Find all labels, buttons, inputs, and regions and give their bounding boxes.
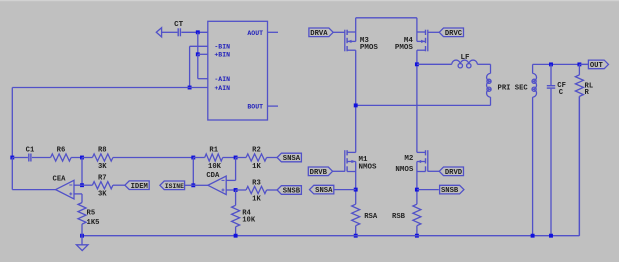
wire CT to block +BIN node — [181, 31, 207, 33]
port SNSB mid — [440, 185, 464, 195]
wire SNSA to M1 source — [334, 189, 356, 191]
wire R6R8 node down to CEA- — [81, 158, 83, 186]
pin +AIN — [214, 85, 230, 92]
svg-text:ISINE: ISINE — [165, 183, 184, 190]
wire BOUT stub — [268, 105, 279, 107]
wire R3 to SNSB — [267, 189, 278, 191]
svg-text:-BIN: -BIN — [214, 44, 230, 51]
transformer secondary SEC — [532, 73, 537, 97]
wire RSA to rail — [355, 226, 357, 236]
capacitor CF — [547, 64, 566, 235]
transistor M4 PMOS — [395, 30, 428, 52]
wire SEC bottom down — [532, 97, 534, 236]
wire LF to PRI — [477, 64, 490, 73]
wire LF lead — [417, 63, 452, 65]
wire M4 gate to DRVC — [428, 31, 440, 33]
svg-text:1K: 1K — [252, 195, 261, 203]
wire node to R3 — [236, 189, 247, 191]
svg-text:C1: C1 — [26, 147, 35, 155]
wire +AIN long west — [12, 87, 208, 89]
svg-text:SNSA: SNSA — [315, 187, 333, 195]
resistor RSA — [352, 204, 378, 226]
wire DRVB to M1 gate — [333, 170, 345, 172]
wire node to R7 — [82, 184, 92, 186]
svg-text:NMOS: NMOS — [359, 163, 378, 171]
node C1 left — [10, 156, 14, 160]
svg-text:C: C — [559, 89, 564, 97]
svg-text:R8: R8 — [98, 147, 107, 155]
transistor M3 PMOS — [345, 30, 379, 52]
port IDEM — [125, 181, 149, 191]
svg-text:PRI SEC: PRI SEC — [498, 84, 529, 92]
node CT junction — [196, 30, 200, 34]
svg-text:OUT: OUT — [590, 62, 604, 70]
svg-text:+AIN: +AIN — [214, 85, 230, 92]
svg-text:DRVB: DRVB — [310, 169, 328, 177]
svg-text:AOUT: AOUT — [247, 30, 263, 37]
label PRI SEC — [498, 84, 529, 92]
wire R4 to rail — [235, 227, 237, 236]
svg-text:LF: LF — [460, 54, 470, 62]
node SEC rail — [531, 234, 535, 238]
node RSA rail — [354, 234, 358, 238]
wire M2 source to SNSB — [417, 189, 439, 191]
resistor R6 — [51, 147, 72, 161]
svg-text:SNSA: SNSA — [283, 155, 301, 163]
wire node to R8 — [82, 157, 92, 159]
wire node to R2 — [236, 157, 247, 159]
wire node down to ISINE — [192, 158, 194, 186]
svg-text:R7: R7 — [98, 174, 107, 182]
wire CEA+ to R5 — [74, 194, 82, 203]
resistor R2 1K — [246, 147, 267, 171]
wire M4 source down — [416, 50, 418, 152]
svg-text:R1: R1 — [209, 147, 218, 155]
node CEA- junction — [80, 183, 84, 187]
port DRVD — [439, 167, 463, 177]
node RSB rail — [415, 234, 419, 238]
svg-text:RSA: RSA — [364, 213, 378, 221]
svg-text:R3: R3 — [252, 179, 261, 187]
inductor LF — [452, 54, 478, 68]
svg-text:BOUT: BOUT — [247, 104, 263, 111]
svg-text:CT: CT — [174, 21, 184, 29]
wire CDA- feedback — [226, 158, 235, 181]
wire M3 source down — [355, 50, 357, 152]
port DRVA — [309, 28, 333, 38]
op-amp CEA — [53, 175, 74, 199]
svg-text:3K: 3K — [98, 191, 107, 199]
svg-text:SNSB: SNSB — [441, 187, 459, 195]
svg-text:R5: R5 — [87, 209, 96, 217]
node R8-R1 junction — [191, 156, 195, 160]
svg-text:CDA: CDA — [206, 172, 220, 180]
port DRVC — [439, 28, 463, 38]
pin -BIN — [214, 44, 230, 51]
op-amp CDA — [206, 172, 226, 195]
wire M2 gate to DRVD — [428, 170, 440, 172]
wire west vertical down — [11, 88, 13, 158]
wire CEA- to node — [74, 184, 82, 186]
node ISINE junction — [191, 183, 195, 187]
svg-text:R2: R2 — [252, 147, 261, 155]
svg-text:1K: 1K — [252, 163, 261, 171]
capacitor CT — [174, 21, 184, 36]
port ISINE — [160, 181, 185, 190]
svg-text:10K: 10K — [208, 163, 222, 171]
node mid-rail junction — [354, 103, 358, 107]
resistor R3 1K — [246, 179, 267, 203]
wire SEC top to output rail — [533, 64, 589, 73]
node R6-R8 — [80, 156, 84, 160]
svg-text:DRVD: DRVD — [445, 169, 463, 177]
svg-text:R6: R6 — [57, 147, 66, 155]
wire RSB to rail — [416, 226, 418, 236]
svg-text:-AIN: -AIN — [214, 76, 230, 83]
wire C1 to R6 — [32, 157, 51, 159]
capacitor C1 — [12, 147, 35, 162]
wire RL to OUT — [579, 63, 588, 65]
wire bottom rail — [82, 96, 579, 235]
svg-text:PMOS: PMOS — [395, 44, 414, 52]
wire M1 source down — [355, 172, 357, 205]
wire +BIN node down to -AIN — [198, 54, 208, 78]
wire R6 to node — [71, 157, 82, 159]
wire ISINE to CDA — [185, 184, 208, 186]
svg-text:DRVA: DRVA — [310, 30, 328, 38]
wire node to R1 — [193, 157, 204, 159]
svg-text:3K: 3K — [98, 163, 107, 171]
wire R8 to R1 node — [113, 157, 193, 159]
pin -AIN — [214, 76, 230, 83]
svg-text:+BIN: +BIN — [214, 52, 230, 59]
node SNSB tap — [415, 188, 419, 192]
resistor RSB — [392, 204, 421, 226]
transformer primary PRI — [487, 73, 492, 97]
svg-text:IDEM: IDEM — [131, 183, 148, 191]
svg-text:10K: 10K — [242, 217, 256, 225]
input arrow port (CT left terminal) — [156, 28, 161, 37]
wire +BIN pin — [198, 53, 208, 55]
svg-text:DRVC: DRVC — [445, 30, 463, 38]
node ground — [80, 234, 84, 238]
wire M2 source down — [416, 172, 418, 205]
port DRVB — [308, 167, 332, 177]
node SNSA tap — [354, 188, 358, 192]
resistor R1 10K — [205, 147, 223, 171]
wire CEA output loop — [12, 158, 55, 190]
node CDA+ junction — [234, 188, 238, 192]
wire -BIN pin loop — [190, 46, 208, 87]
svg-text:M2: M2 — [404, 155, 414, 163]
resistor R8 3K — [92, 147, 113, 171]
pin AOUT — [247, 30, 263, 37]
wire M3 drain to rail — [355, 18, 357, 32]
svg-text:SNSB: SNSB — [283, 188, 301, 196]
svg-text:NMOS: NMOS — [395, 166, 414, 174]
op-amp block U1 — [208, 21, 268, 120]
port SNSA left — [277, 153, 301, 163]
wire R7 to IDEM — [113, 184, 125, 186]
svg-text:RSB: RSB — [392, 213, 406, 221]
transistor M2 NMOS — [395, 150, 427, 174]
wire CT arrow to capacitor — [162, 31, 178, 33]
node CF rail — [549, 234, 553, 238]
svg-text:PMOS: PMOS — [360, 44, 379, 52]
node +AIN junction — [188, 86, 192, 90]
svg-text:1K5: 1K5 — [87, 219, 100, 227]
resistor R7 3K — [92, 174, 113, 198]
wire R1 to node — [223, 157, 236, 159]
svg-text:R: R — [585, 89, 590, 97]
wire R5 to rail — [81, 224, 83, 236]
pin BOUT — [247, 104, 263, 111]
wire node down to R4 — [235, 190, 237, 205]
wire AOUT stub — [268, 31, 279, 33]
port OUT — [588, 60, 608, 70]
node LF junction — [415, 62, 419, 66]
port SNSB left — [277, 186, 301, 196]
svg-text:CEA: CEA — [53, 175, 67, 183]
node R1-R2 junction — [234, 156, 238, 160]
resistor RL — [575, 64, 593, 235]
wire top rail — [356, 17, 417, 19]
port SNSA mid — [310, 185, 334, 195]
wire PRI bottom return — [356, 97, 491, 105]
node R4 rail — [234, 234, 238, 238]
pin +BIN — [214, 52, 230, 59]
node CF top — [549, 62, 553, 66]
resistor R4 10K — [232, 205, 256, 227]
wire M4 drain to rail — [416, 18, 418, 32]
ground — [76, 236, 88, 251]
transistor M1 NMOS — [345, 150, 377, 171]
node +BIN junction — [196, 52, 200, 56]
resistor R5 1K5 — [78, 203, 99, 228]
wire CT node down to +BIN — [197, 32, 199, 54]
wire DRVA to M3 gate — [333, 31, 345, 33]
wire R2 to SNSA — [267, 157, 278, 159]
wire CDA+ junction — [226, 189, 235, 191]
node RL top — [577, 62, 581, 66]
